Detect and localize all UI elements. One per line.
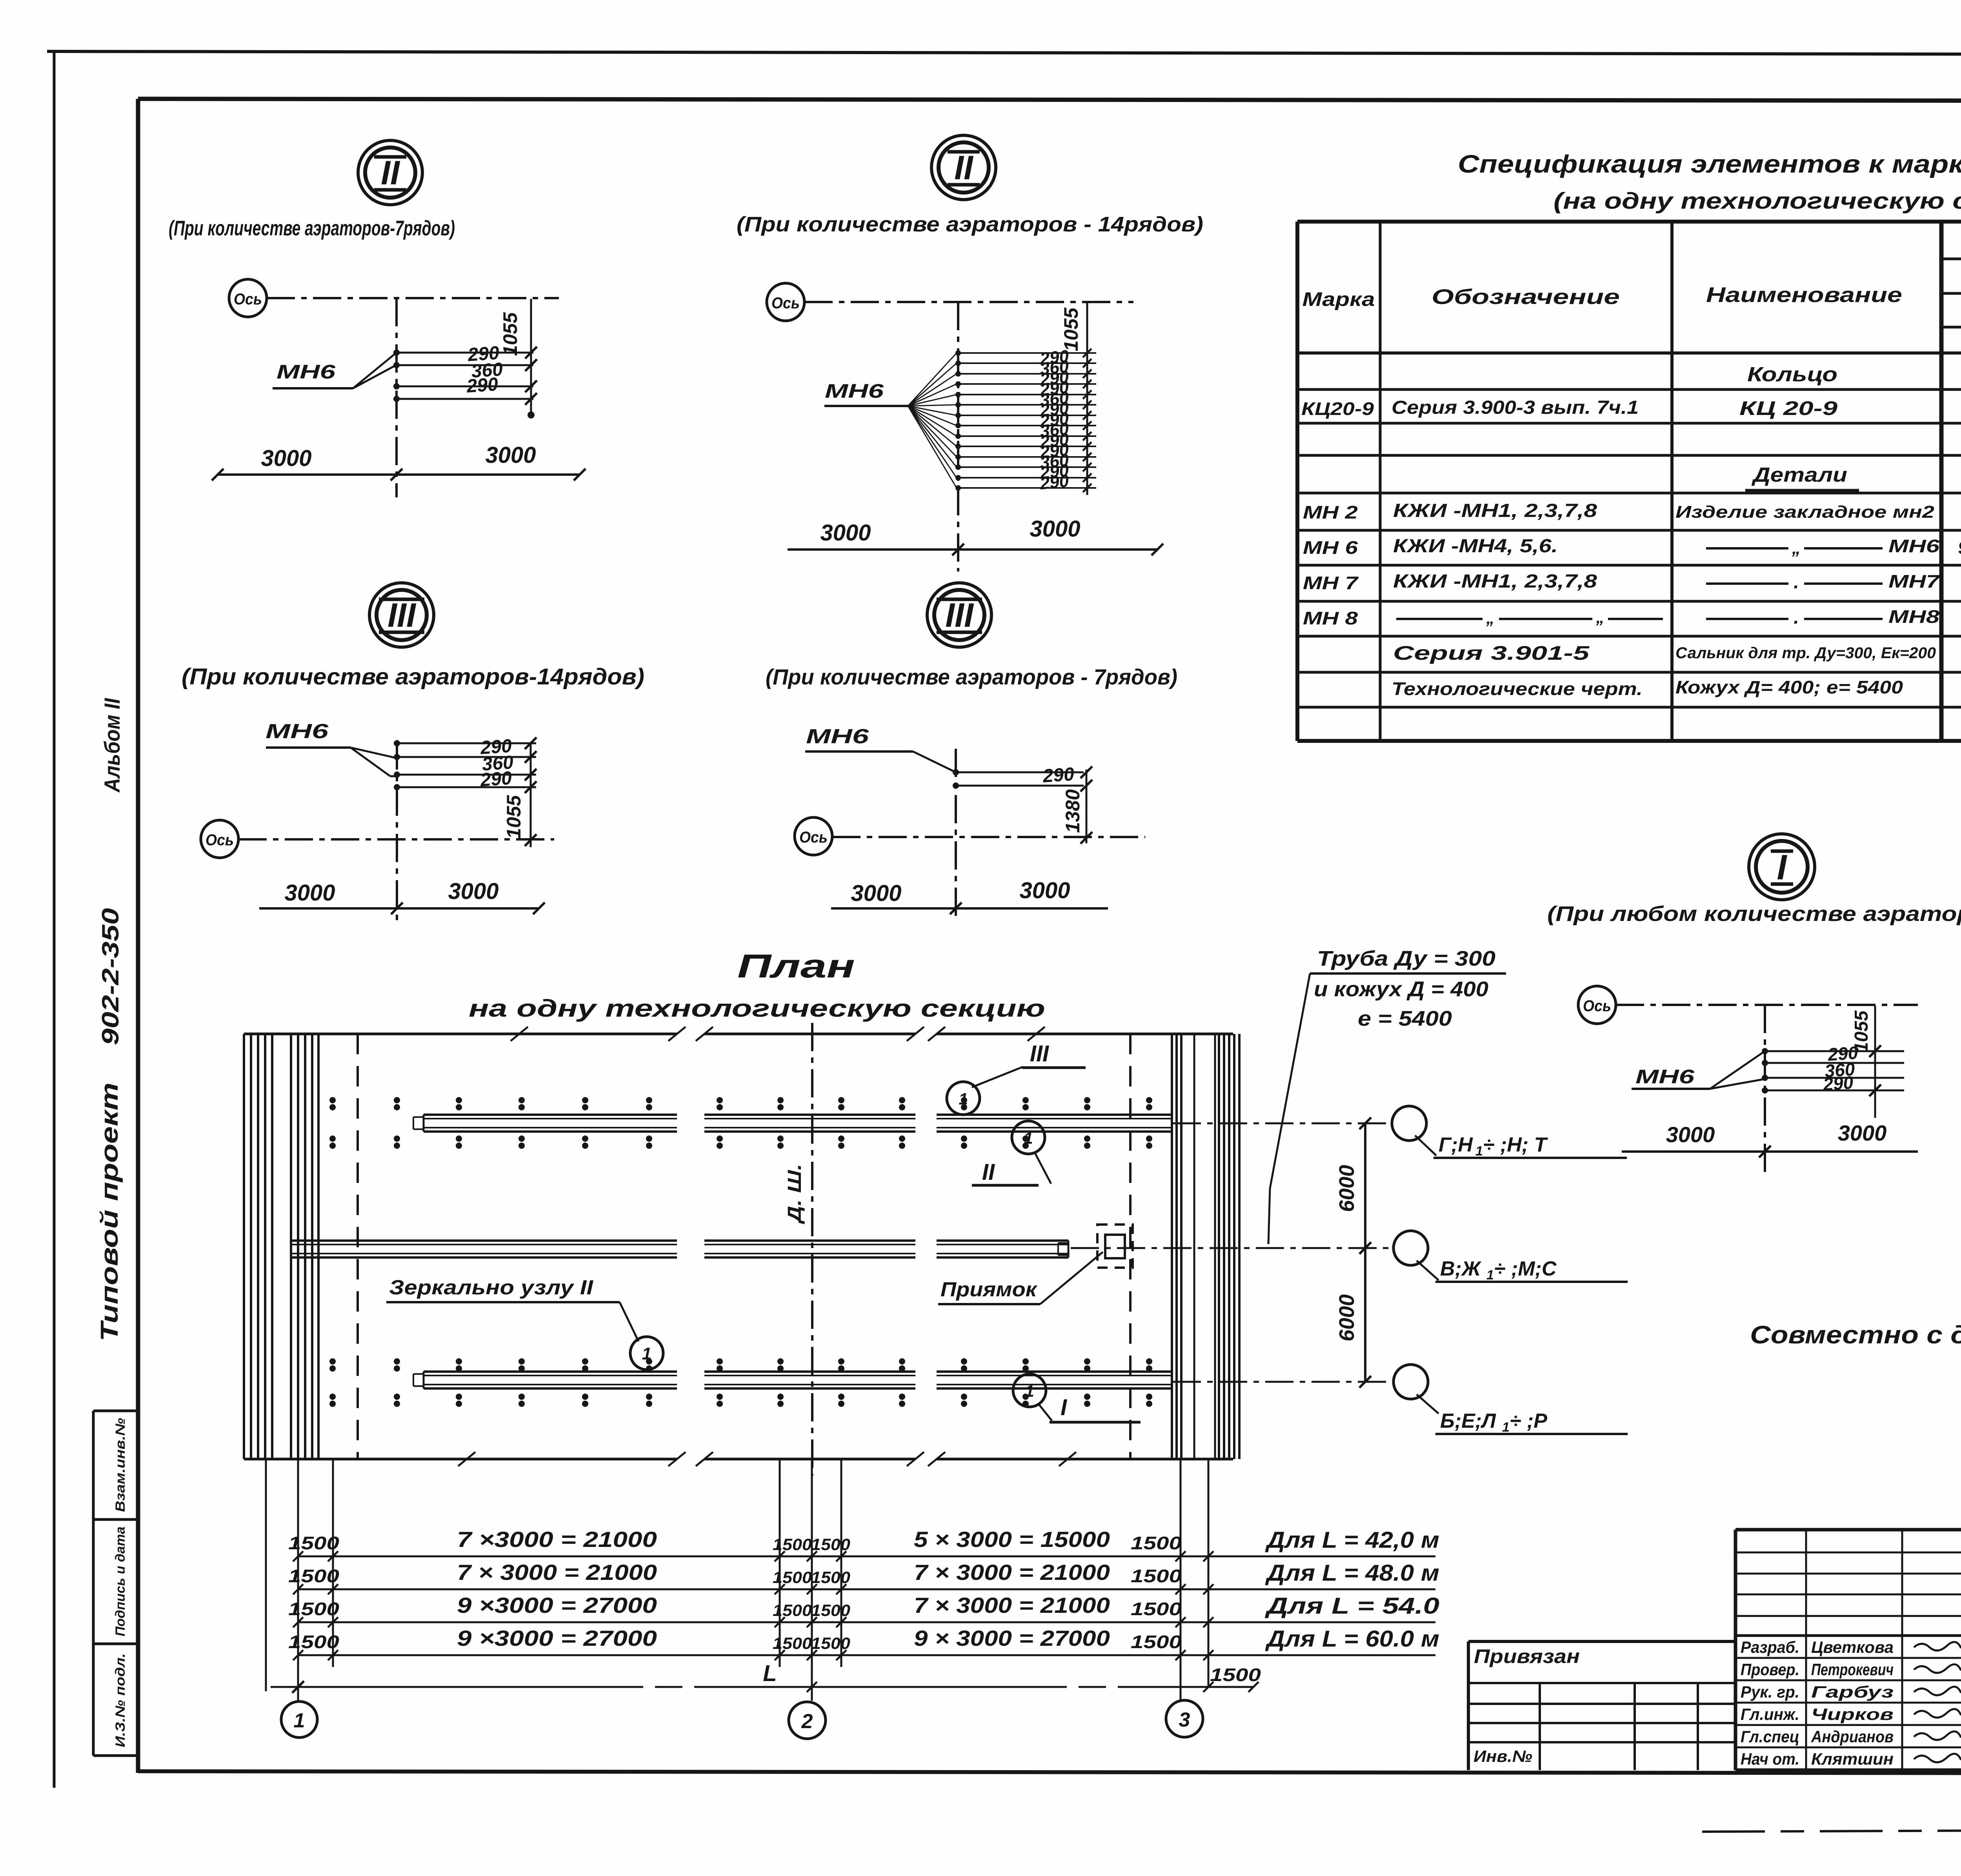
svg-text:Детали: Детали (1751, 464, 1847, 486)
svg-text:÷ ;М;С: ÷ ;М;С (1494, 1257, 1557, 1280)
svg-text:9 ×3000 = 27000: 9 ×3000 = 27000 (457, 1626, 657, 1650)
svg-text:III: III (1030, 1041, 1050, 1066)
svg-text:902-2-350: 902-2-350 (97, 908, 124, 1045)
svg-text:КЖИ -МН1, 2,3,7,8: КЖИ -МН1, 2,3,7,8 (1393, 571, 1597, 592)
svg-text:КЖИ -МН4, 5,6.: КЖИ -МН4, 5,6. (1393, 536, 1558, 557)
svg-text:Для L = 42,0 м: Для L = 42,0 м (1265, 1527, 1439, 1553)
svg-text:1055: 1055 (503, 795, 525, 839)
left margin text Album II (100, 698, 124, 793)
svg-text:Рук. гр.: Рук. гр. (1741, 1683, 1799, 1701)
svg-text:1500: 1500 (773, 1634, 812, 1652)
center line vertical (I) (1764, 1005, 1766, 1175)
svg-text:1500: 1500 (811, 1601, 850, 1619)
svg-text:÷ ;Р: ÷ ;Р (1510, 1410, 1547, 1432)
bottom dim 3000/3000 (I) (1622, 1121, 1918, 1157)
center line vertical (III-14) (396, 741, 398, 926)
plan marker I (1013, 1374, 1141, 1422)
svg-text:1055: 1055 (499, 312, 521, 356)
MN6 ladder lines (I) (1762, 1048, 1904, 1094)
spec table row MN2 (1303, 500, 1961, 523)
svg-text:МН 7: МН 7 (1303, 573, 1359, 593)
dim 6000/6000 vertical (1335, 1117, 1371, 1388)
aerator anchor dots (329, 1097, 1152, 1407)
svg-text:6000: 6000 (1335, 1294, 1359, 1341)
svg-text:(При количестве аэраторов-14ря: (При количестве аэраторов-14рядов) (182, 664, 644, 690)
ladder labels (II-14) (1039, 346, 1070, 493)
MN6 label (III-7) (805, 725, 956, 772)
plan left dashed wall line (357, 1034, 359, 1459)
svg-text:1: 1 (959, 1090, 968, 1108)
svg-text:Разраб.: Разраб. (1741, 1638, 1799, 1656)
svg-text:290: 290 (466, 374, 499, 397)
svg-text:1500: 1500 (288, 1599, 340, 1619)
svg-text:3000: 3000 (448, 879, 498, 904)
dim line 1055 (III-14) (503, 737, 537, 847)
plan top edge (244, 1033, 1233, 1035)
aerator strip top (424, 1114, 677, 1116)
svg-text:И.З.№ подл.: И.З.№ подл. (113, 1653, 128, 1747)
label Zerkalno uzlu II (386, 1276, 639, 1341)
svg-text:3000: 3000 (261, 446, 311, 471)
axis line (II-14) (804, 301, 1133, 303)
svg-text:III: III (945, 597, 974, 634)
plan marker III (947, 1041, 1086, 1115)
svg-text:Наименование: Наименование (1706, 283, 1902, 307)
svg-text:КЦ20-9: КЦ20-9 (1301, 398, 1374, 419)
MN6 ladder lines (II-14) (955, 350, 1096, 491)
left margin stamp boxes (93, 1411, 138, 1756)
spec table row Tekhnologicheskie chert (1392, 677, 1961, 699)
spec table row KC20-9 (1301, 397, 1961, 420)
spec table row MN6 (1303, 536, 1961, 558)
svg-text:Привязан: Привязан (1474, 1645, 1580, 1667)
svg-text:Зеркально узлу II: Зеркально узлу II (389, 1276, 594, 1299)
dim row line y=3968 (288, 1527, 1439, 1561)
svg-text:Нач от.: Нач от. (1741, 1750, 1799, 1768)
svg-text:МН6: МН6 (825, 380, 884, 402)
svg-text:Гл.инж.: Гл.инж. (1741, 1705, 1799, 1723)
svg-text:1500: 1500 (288, 1533, 340, 1553)
svg-text:1: 1 (1475, 1144, 1483, 1159)
spec table row Seria 3.901-5 (1393, 642, 1961, 664)
svg-text:II: II (381, 154, 400, 192)
axis circle Os (II-14) (767, 283, 804, 321)
svg-text:Для L = 48.0 м: Для L = 48.0 м (1265, 1560, 1439, 1586)
svg-text:Изделие закладное мн2: Изделие закладное мн2 (1675, 502, 1935, 522)
MN6 ladder lines (III-14) (394, 740, 536, 790)
svg-text:Серия 3.901-5: Серия 3.901-5 (1393, 642, 1590, 664)
svg-text:Приямок: Приямок (940, 1278, 1038, 1301)
svg-text:Альбом II: Альбом II (100, 698, 124, 793)
svg-text:МН 2: МН 2 (1303, 502, 1358, 522)
plan marker II (972, 1121, 1051, 1185)
svg-text:МН6: МН6 (277, 361, 336, 383)
svg-text:Взам.инв.№: Взам.инв.№ (113, 1418, 128, 1512)
overall L dimension line (271, 1661, 1261, 1693)
plan title (469, 948, 1045, 1022)
svg-text:1500: 1500 (1131, 1533, 1182, 1553)
aerator strip middle (292, 1239, 677, 1242)
aerator strip bottom (424, 1370, 677, 1373)
title block squiggle signatures (1914, 1636, 1961, 1762)
svg-text:Ось: Ось (206, 832, 234, 849)
dim line 1055 (II-7) (499, 299, 537, 419)
svg-text:3000: 3000 (1838, 1121, 1887, 1145)
svg-text:(на одну технологическую се: (на одну технологическую секцию) (1554, 188, 1961, 214)
svg-text:„: „ (1596, 608, 1604, 626)
MN6 label (III-14) (266, 720, 395, 776)
svg-text:Совместно с данным см. л: Совместно с данным см. л.л. КЖ-68,69. (1750, 1321, 1961, 1349)
spec table section Koltso (1739, 363, 1851, 389)
svg-text:2: 2 (801, 1710, 813, 1733)
svg-text:Обозначение: Обозначение (1432, 285, 1620, 309)
svg-text:II: II (982, 1159, 995, 1185)
svg-text:Ось: Ось (1583, 997, 1611, 1015)
svg-text:I: I (1777, 848, 1787, 887)
svg-text:I: I (1061, 1395, 1068, 1420)
ladder label 290 (III-7) (1042, 764, 1075, 787)
spec table grid (1297, 222, 1961, 741)
detail marker II (7 rows) (358, 140, 422, 205)
svg-text:на одну технологическую сек: на одну технологическую секцию (469, 995, 1045, 1022)
svg-text:Ось: Ось (771, 295, 800, 312)
svg-text:Д. Ш.: Д. Ш. (784, 1164, 805, 1225)
svg-text:Клятшин: Клятшин (1811, 1750, 1894, 1768)
svg-text:3000: 3000 (851, 881, 901, 906)
title block frame (1735, 1530, 1961, 1770)
grid bubble 1 (281, 1701, 317, 1738)
dim line 1055 (I) (1851, 1006, 1881, 1118)
svg-text:Технологические черт.: Технологические черт. (1392, 679, 1643, 699)
svg-text:Спецификация элементов к ма: Спецификация элементов к маркировочной с… (1458, 150, 1961, 178)
svg-text:.: . (1794, 572, 1799, 593)
svg-text:План: План (737, 948, 855, 984)
axis circle Os (III-14) (201, 820, 238, 858)
dim line 1055 (II-14) (1060, 303, 1091, 495)
svg-text:МН8: МН8 (1888, 606, 1940, 627)
svg-text:„: „ (1792, 539, 1801, 558)
svg-text:Сальник для тр. Ду=300, Ек=200: Сальник для тр. Ду=300, Ек=200 (1675, 644, 1936, 662)
priyamok dashed pit square (1097, 1225, 1133, 1268)
svg-text:Петрокевич: Петрокевич (1811, 1660, 1894, 1679)
svg-text:Для L = 60.0 м: Для L = 60.0 м (1265, 1626, 1439, 1652)
svg-text:290: 290 (1042, 764, 1075, 787)
svg-text:1: 1 (1486, 1268, 1494, 1283)
svg-text:1055: 1055 (1060, 307, 1082, 351)
plan left wall hatching (244, 1034, 318, 1459)
dim row line y=4220 (288, 1626, 1439, 1660)
svg-text:Кожух Д= 400; е= 5400: Кожух Д= 400; е= 5400 (1675, 677, 1903, 697)
svg-text:1500: 1500 (288, 1566, 340, 1586)
svg-text:3000: 3000 (284, 880, 335, 906)
svg-text:(При количестве аэраторов - 7р: (При количестве аэраторов - 7рядов) (766, 664, 1177, 689)
svg-text:(При любом количестве аэрато: (При любом количестве аэраторов). (1547, 902, 1961, 926)
svg-text:(При количестве аэраторов - 1: (При количестве аэраторов - 14рядов) (737, 213, 1203, 236)
plan bottom edge (244, 1458, 1233, 1461)
title block left grid (1735, 1530, 1961, 1770)
title block signature labels (1741, 1638, 1894, 1768)
spec table title (1458, 150, 1961, 214)
svg-text:Б;Е;Л: Б;Е;Л (1440, 1410, 1496, 1432)
svg-text:МН6: МН6 (1888, 536, 1940, 556)
svg-text:МН 8: МН 8 (1303, 608, 1358, 628)
svg-text:3000: 3000 (1666, 1122, 1715, 1147)
svg-text:1: 1 (642, 1344, 651, 1363)
axis line (III-14) (238, 838, 554, 841)
svg-text:6000: 6000 (1335, 1165, 1359, 1212)
detail marker II (14 rows) (931, 135, 996, 200)
svg-text:КЖИ -МН1, 2,3,7,8: КЖИ -МН1, 2,3,7,8 (1393, 500, 1597, 521)
dim row line y=4136 (288, 1593, 1439, 1627)
svg-text:1380: 1380 (1062, 789, 1084, 833)
spec table section Detali (1745, 464, 1859, 490)
svg-text:1500: 1500 (1131, 1599, 1182, 1619)
axis circle G;N;T (1392, 1106, 1627, 1159)
pipe note Truba (1268, 947, 1506, 1244)
svg-text:е = 5400: е = 5400 (1358, 1007, 1452, 1030)
MN6 ladder lines (II-7) (393, 349, 533, 402)
svg-text:290: 290 (1822, 1072, 1854, 1094)
svg-text:Подпись и дата: Подпись и дата (113, 1527, 128, 1636)
svg-text:1500: 1500 (1131, 1566, 1182, 1586)
bottom dim 3000/3000 (II-14) (788, 516, 1163, 555)
svg-text:1500: 1500 (811, 1568, 850, 1587)
axis circle Os (II-7) (229, 279, 267, 317)
svg-text:МН6: МН6 (806, 725, 870, 748)
axis circle B;E;L;R (1393, 1365, 1628, 1435)
svg-text:1500: 1500 (1210, 1665, 1261, 1685)
svg-text:98: 98 (1958, 537, 1961, 558)
label Priyamok (938, 1252, 1103, 1304)
MN6 label and fan leaders (II-14) (824, 353, 957, 488)
svg-text:Гл.спец: Гл.спец (1741, 1727, 1799, 1746)
svg-text:7 × 3000 = 21000: 7 × 3000 = 21000 (457, 1560, 657, 1585)
svg-text:Андрианов: Андрианов (1811, 1727, 1894, 1746)
svg-text:1500: 1500 (773, 1568, 812, 1587)
svg-text:1: 1 (294, 1709, 305, 1732)
axis circle V;Zh;M;S (1393, 1231, 1628, 1283)
plan axis D.Sh. center line (784, 1023, 812, 1476)
svg-text:3: 3 (1179, 1709, 1190, 1731)
svg-text:L: L (763, 1661, 777, 1686)
svg-text:7 × 3000 = 21000: 7 × 3000 = 21000 (914, 1593, 1110, 1618)
left margin text Tipovoy proekt (96, 1083, 123, 1341)
MN6 label (II-7) (273, 354, 395, 388)
svg-text:Ось: Ось (799, 829, 828, 846)
svg-text:1500: 1500 (1131, 1632, 1182, 1652)
plan break marks (458, 1027, 1076, 1466)
svg-text:КЦ 20-9: КЦ 20-9 (1739, 397, 1837, 419)
detail marker III (14 rows) (369, 583, 434, 647)
svg-text:и кожух Д = 400: и кожух Д = 400 (1314, 977, 1488, 1001)
svg-text:3000: 3000 (1030, 516, 1080, 542)
axis line (II-7) (267, 297, 559, 299)
svg-text:.: . (1794, 607, 1799, 628)
svg-text:Г;Н: Г;Н (1439, 1134, 1473, 1156)
spec table row MN8 (1303, 606, 1961, 629)
axis line (I) (1616, 1004, 1918, 1006)
left margin text 902-2-350 (97, 908, 124, 1045)
svg-text:Для L = 54.0: Для L = 54.0 (1264, 1593, 1439, 1619)
svg-text:3000: 3000 (1019, 878, 1070, 903)
svg-text:„: „ (1486, 609, 1495, 627)
ladder labels (I) (1822, 1042, 1859, 1094)
svg-text:Ось: Ось (234, 291, 262, 308)
svg-text:МН6: МН6 (1635, 1066, 1695, 1088)
svg-text:7 ×3000 = 21000: 7 ×3000 = 21000 (457, 1527, 657, 1552)
svg-text:Труба Ду = 300: Труба Ду = 300 (1317, 947, 1495, 970)
axis line (III-7) (832, 836, 1145, 838)
svg-text:МН7: МН7 (1888, 571, 1941, 591)
svg-text:9 × 3000 = 27000: 9 × 3000 = 27000 (914, 1626, 1110, 1650)
svg-text:9 ×3000 = 27000: 9 ×3000 = 27000 (457, 1593, 657, 1618)
dim line 1380 (III-7) (1062, 766, 1092, 844)
ladder labels (III-14) (479, 735, 514, 791)
plan right dashed wall line (1129, 1034, 1131, 1459)
svg-text:3000: 3000 (820, 520, 871, 546)
svg-text:(При количестве аэраторов-7ря: (При количестве аэраторов-7рядов) (169, 217, 455, 240)
svg-text:Гарбуз: Гарбуз (1811, 1683, 1894, 1701)
bottom dim 3000/3000 (III-7) (831, 878, 1108, 914)
svg-text:1500: 1500 (811, 1634, 850, 1652)
MN6 ladder lines (III-7) (953, 769, 1084, 789)
center line vertical (III-7) (955, 749, 957, 921)
dim row line y=4052 (288, 1560, 1439, 1594)
MN6 label (I) (1632, 1053, 1763, 1089)
svg-text:II: II (954, 149, 974, 187)
grid bubble 2 (789, 1702, 826, 1739)
svg-text:1500: 1500 (288, 1632, 340, 1652)
svg-text:290: 290 (479, 768, 513, 791)
svg-text:1: 1 (1025, 1382, 1034, 1400)
svg-text:В;Ж: В;Ж (1440, 1257, 1482, 1280)
svg-text:1500: 1500 (773, 1535, 812, 1554)
svg-text:Чирков: Чирков (1811, 1705, 1894, 1723)
bottom outer dashed edge (1702, 1804, 1961, 1832)
spec table headers (1302, 235, 1961, 350)
grid bubble 3 (1166, 1700, 1203, 1737)
svg-text:Цветкова: Цветкова (1811, 1638, 1894, 1656)
svg-text:МН6: МН6 (266, 720, 329, 743)
bottom dim 3000/3000 (II-7) (212, 442, 586, 480)
dim grid verticals (266, 1459, 1208, 1702)
spec table row MN7 (1303, 571, 1961, 593)
svg-text:7 × 3000 = 21000: 7 × 3000 = 21000 (914, 1560, 1110, 1585)
svg-text:1500: 1500 (811, 1535, 850, 1554)
svg-text:III: III (387, 597, 417, 634)
svg-text:Марка: Марка (1302, 288, 1375, 310)
svg-text:1055: 1055 (1851, 1010, 1872, 1052)
svg-text:÷ ;Н; Т: ÷ ;Н; Т (1483, 1134, 1548, 1156)
svg-text:Провер.: Провер. (1741, 1660, 1799, 1679)
svg-text:МН 6: МН 6 (1303, 537, 1358, 558)
privyazan box (1468, 1641, 1735, 1770)
axis circle Os (I) (1578, 986, 1616, 1024)
axis circle Os (III-7) (795, 817, 832, 855)
node circle 1 (zerkalno) (630, 1337, 663, 1370)
svg-text:Кольцо: Кольцо (1747, 363, 1837, 386)
detail marker III (7 rows) (927, 583, 991, 647)
svg-text:290: 290 (1039, 471, 1070, 493)
plan right wall hatching (1172, 1034, 1239, 1459)
svg-text:Инв.№: Инв.№ (1473, 1747, 1532, 1765)
svg-text:1: 1 (1502, 1420, 1510, 1435)
svg-text:Типовой проект: Типовой проект (96, 1083, 123, 1341)
svg-text:1: 1 (1024, 1129, 1033, 1147)
axis rows to target circles (1071, 1123, 1393, 1382)
svg-text:1500: 1500 (773, 1601, 812, 1619)
center line vertical (II-14) (957, 302, 959, 571)
center line vertical (II-7) (395, 298, 398, 497)
bottom dim 3000/3000 (III-14) (259, 879, 545, 914)
detail marker I (1749, 834, 1815, 900)
ladder labels 290/360/290 (II-7) (466, 342, 504, 397)
svg-text:Серия 3.900-3 вып. 7ч.1: Серия 3.900-3 вып. 7ч.1 (1392, 397, 1639, 418)
svg-text:5 × 3000 = 15000: 5 × 3000 = 15000 (914, 1527, 1110, 1552)
svg-text:3000: 3000 (485, 442, 536, 468)
